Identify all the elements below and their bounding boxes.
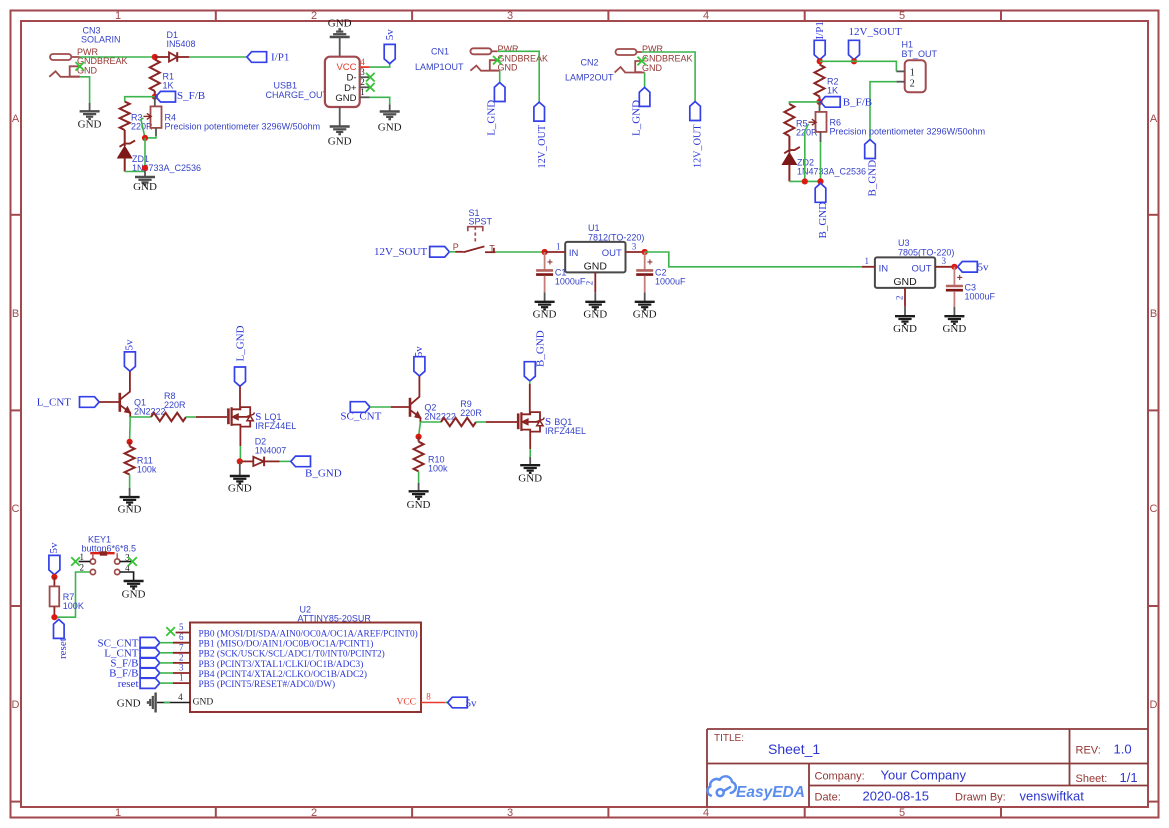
junction ZD1 ground xyxy=(142,165,148,171)
svg-text:PB4 (PCINT4/XTAL2/CLKO/OC1B/AD: PB4 (PCINT4/XTAL2/CLKO/OC1B/ADC2) xyxy=(199,669,367,680)
svg-text:4: 4 xyxy=(178,692,183,702)
power flag 5v at Q2 xyxy=(414,357,425,376)
wire PWR to D1 xyxy=(80,56,155,58)
svg-text:GND: GND xyxy=(193,698,214,708)
net port L_GND (CN1) xyxy=(494,83,505,102)
USB1 pin 3 xyxy=(360,76,370,78)
svg-text:B: B xyxy=(12,308,19,320)
svg-text:PB2 (SCK/USCK/SCL/ADC1/T0/INT0: PB2 (SCK/USCK/SCL/ADC1/T0/INT0/PCINT2) xyxy=(199,649,385,660)
svg-text:D: D xyxy=(12,699,20,711)
svg-text:5v: 5v xyxy=(466,697,478,709)
svg-text:100k: 100k xyxy=(428,464,448,474)
no-connect X on KEY1 pin3 xyxy=(128,557,137,566)
net port B_GND (H1) xyxy=(865,140,876,159)
junction R10 top xyxy=(416,434,422,440)
wire R4 bottom to junction xyxy=(145,136,156,138)
svg-text:GND: GND xyxy=(118,504,142,516)
frame right ticks xyxy=(1148,215,1159,802)
svg-text:3: 3 xyxy=(632,241,637,251)
svg-text:4: 4 xyxy=(360,57,365,67)
svg-text:1.0: 1.0 xyxy=(1114,742,1132,757)
svg-text:P: P xyxy=(453,242,459,252)
U2 pin 8 (VCC) to 5v xyxy=(421,702,445,704)
svg-text:1: 1 xyxy=(80,552,85,562)
svg-text:GND: GND xyxy=(335,93,356,104)
frame zone letters left xyxy=(12,113,20,711)
junction 5v/R7 xyxy=(51,574,57,580)
ground C3 xyxy=(944,316,964,324)
svg-text:1000uF: 1000uF xyxy=(655,277,686,287)
svg-text:1000uF: 1000uF xyxy=(965,292,996,302)
net port B_GND (ZD2) xyxy=(815,183,826,202)
svg-text:7: 7 xyxy=(179,642,184,652)
zener diode ZD1 xyxy=(124,130,126,146)
wire junction down xyxy=(144,138,146,171)
svg-text:1: 1 xyxy=(910,68,915,79)
junction at S_F/B node xyxy=(152,94,158,100)
capacitor C3 xyxy=(953,267,955,285)
net port I/P1 (top right, vertical) xyxy=(814,40,825,59)
ground LQ1 xyxy=(239,461,241,476)
H1 pin 2 wire to B_GND xyxy=(896,81,904,83)
no-connect X on USB1 pin 3 xyxy=(366,73,375,82)
svg-text:Company:: Company: xyxy=(815,771,865,783)
U2 pin 5 (PB0, nc) xyxy=(176,632,190,634)
ground R11 xyxy=(120,497,140,505)
resistor R9 xyxy=(441,418,476,426)
svg-text:GND: GND xyxy=(583,309,607,321)
no-connect X on CN3 GNDBREAK xyxy=(76,62,85,71)
svg-text:GND: GND xyxy=(228,483,252,495)
net port reset (vertical) xyxy=(54,619,65,638)
connector CN2 barrel jack symbol xyxy=(615,49,645,73)
svg-text:5: 5 xyxy=(899,807,905,819)
diode D1 xyxy=(155,56,169,58)
junction C2 xyxy=(642,249,648,255)
H1 pin 1 wire xyxy=(896,70,904,72)
svg-text:2: 2 xyxy=(311,10,317,22)
svg-text:2020-08-15: 2020-08-15 xyxy=(863,789,930,804)
svg-text:B_GND: B_GND xyxy=(535,330,547,367)
frame zone numbers top xyxy=(115,10,905,22)
regulator U3 body xyxy=(875,257,935,288)
ground C2 xyxy=(635,302,655,310)
wire ZD2 bottom rail xyxy=(789,180,820,182)
svg-text:4: 4 xyxy=(703,807,709,819)
wire CN2 PWR to 12V_OUT xyxy=(642,52,695,102)
svg-text:LAMP2OUT: LAMP2OUT xyxy=(565,73,614,83)
junction at R1 top xyxy=(152,54,158,60)
capacitor C1 xyxy=(544,252,546,269)
junction LQ1 source xyxy=(237,458,243,464)
power flag 5v at U3 xyxy=(958,262,978,273)
wire CN2 GND to L_GND xyxy=(644,73,646,88)
net port B_GND above BQ1 xyxy=(524,362,535,381)
svg-text:PB0 (MOSI/DI/SDA/AIN0/OC0A/OC1: PB0 (MOSI/DI/SDA/AIN0/OC0A/OC1A/AREF/PCI… xyxy=(199,628,418,639)
svg-text:5: 5 xyxy=(899,10,905,22)
svg-text:5v: 5v xyxy=(413,346,425,358)
transistor Q1 xyxy=(120,371,130,417)
frame left ticks xyxy=(11,215,22,802)
power flag 5v at KEY1 xyxy=(49,555,60,574)
svg-text:100k: 100k xyxy=(137,465,157,475)
wire CN3 GND to ground xyxy=(80,77,90,103)
resistor R7 xyxy=(53,577,55,587)
frame top ticks xyxy=(216,11,1001,22)
title block frame xyxy=(707,729,1148,807)
resistor R5 xyxy=(784,104,794,136)
svg-text:I/P1: I/P1 xyxy=(271,52,289,64)
ground KEY1 xyxy=(124,581,144,589)
wire L_GND to LQ1 drain xyxy=(239,386,241,409)
svg-text:Precision potentiometer 3296W/: Precision potentiometer 3296W/50ohm xyxy=(830,127,986,137)
svg-text:3: 3 xyxy=(507,807,513,819)
power flag 5v at USB1 xyxy=(384,44,395,63)
junction 12V_SOUT xyxy=(851,58,857,64)
ground below USB1 xyxy=(339,107,341,127)
svg-text:GND: GND xyxy=(122,589,146,601)
net port S_F/B xyxy=(156,91,176,102)
svg-text:GND: GND xyxy=(942,323,966,335)
svg-text:1K: 1K xyxy=(163,81,174,91)
svg-text:2: 2 xyxy=(179,652,184,662)
no-connect X on KEY1 pin1 xyxy=(71,557,80,566)
svg-text:3: 3 xyxy=(179,663,184,673)
wire top rail to H1 xyxy=(820,61,897,71)
svg-text:C: C xyxy=(1150,503,1158,515)
svg-text:1N4733A_C2536: 1N4733A_C2536 xyxy=(797,167,866,177)
svg-text:L_CNT: L_CNT xyxy=(37,397,72,409)
resistor R1 xyxy=(150,60,160,92)
svg-text:L_GND: L_GND xyxy=(486,100,498,136)
svg-text:GND: GND xyxy=(328,18,352,30)
USB1 pin 2 xyxy=(360,86,370,88)
wire USB1 VCC to 5v xyxy=(370,64,390,67)
svg-text:3: 3 xyxy=(507,10,513,22)
svg-text:S_F/B: S_F/B xyxy=(177,90,205,102)
potentiometer R4 xyxy=(154,97,156,107)
mosfet LQ1 xyxy=(228,407,250,427)
svg-text:L_GND: L_GND xyxy=(235,325,247,361)
wire BQ1 source to ground xyxy=(529,432,531,449)
svg-text:220R: 220R xyxy=(164,400,186,410)
svg-text:5v: 5v xyxy=(124,339,136,351)
svg-text:2: 2 xyxy=(360,77,365,87)
ground U3 xyxy=(895,316,915,324)
wire R8 to LQ1 gate xyxy=(186,416,196,418)
svg-text:IN: IN xyxy=(569,248,579,259)
svg-text:C: C xyxy=(12,503,20,515)
svg-text:2: 2 xyxy=(910,79,915,90)
USB1 pin 4 xyxy=(360,66,370,68)
svg-text:A: A xyxy=(12,113,20,125)
svg-text:IRFZ44EL: IRFZ44EL xyxy=(545,426,586,436)
resistor R2 xyxy=(815,65,825,97)
svg-text:Precision potentiometer 3296W/: Precision potentiometer 3296W/50ohm xyxy=(165,122,321,132)
svg-text:B_GND: B_GND xyxy=(305,468,342,480)
wire USB1 GND pin to ground xyxy=(370,97,390,104)
svg-text:GND: GND xyxy=(533,309,557,321)
svg-text:VCC: VCC xyxy=(336,62,356,73)
svg-text:BT_OUT: BT_OUT xyxy=(902,49,938,59)
wire CN1 PWR to 12V_OUT xyxy=(497,51,539,102)
svg-text:B_GND: B_GND xyxy=(817,202,829,239)
svg-text:6: 6 xyxy=(179,632,184,642)
svg-text:reset: reset xyxy=(118,678,139,690)
wire SC_CNT to Q2 base xyxy=(370,406,391,408)
U3 pin 1 xyxy=(862,266,875,268)
U2 pin 4 (GND) xyxy=(157,702,190,704)
svg-text:1000uF: 1000uF xyxy=(555,277,586,287)
BQ1 body diode xyxy=(537,421,543,426)
wire L_CNT to Q1 base xyxy=(99,401,119,403)
svg-text:REV:: REV: xyxy=(1076,745,1101,757)
svg-text:GND: GND xyxy=(78,118,102,130)
U3 pin 2 (GND) xyxy=(904,288,906,307)
ground USB1 pin1 xyxy=(380,112,400,120)
svg-text:OUT: OUT xyxy=(911,264,931,275)
svg-text:SPST: SPST xyxy=(469,217,493,227)
svg-text:1: 1 xyxy=(360,87,365,97)
wire Q1 emitter node xyxy=(130,416,151,418)
svg-text:5v: 5v xyxy=(48,542,60,554)
header H1 body xyxy=(905,60,926,92)
junction R7/reset xyxy=(51,614,57,620)
no-connect X on CN1 GNDBREAK xyxy=(493,56,502,65)
frame zone letters right xyxy=(1150,113,1158,711)
U3 pin 3 xyxy=(935,266,954,268)
svg-text:220R: 220R xyxy=(460,408,482,418)
svg-text:2N2222: 2N2222 xyxy=(424,412,456,422)
net port B_GND (D2) xyxy=(291,456,311,467)
connector CN3 barrel jack symbol xyxy=(49,54,80,77)
svg-text:SOLARIN: SOLARIN xyxy=(81,35,121,45)
zener diode ZD2 xyxy=(788,136,790,153)
svg-text:+: + xyxy=(547,258,553,269)
svg-text:12V_SOUT: 12V_SOUT xyxy=(849,26,902,38)
connector CN1 barrel jack symbol xyxy=(470,48,499,70)
svg-text:GND: GND xyxy=(328,135,352,147)
ground BQ1 xyxy=(520,465,540,473)
svg-text:LAMP1OUT: LAMP1OUT xyxy=(415,62,464,72)
LQ1 body diode xyxy=(247,416,253,421)
svg-text:CHARGE_OUT: CHARGE_OUT xyxy=(266,90,329,100)
junction B_F/B node xyxy=(816,99,822,105)
svg-text:12V_OUT: 12V_OUT xyxy=(693,124,704,168)
svg-text:B_GND: B_GND xyxy=(867,160,879,197)
frame bottom ticks xyxy=(216,807,1001,818)
svg-text:GND: GND xyxy=(633,309,657,321)
wire D1 to I/P1 xyxy=(189,56,247,58)
connector USB1 body xyxy=(325,57,360,107)
frame zone numbers bottom xyxy=(115,807,905,819)
svg-text:2: 2 xyxy=(585,281,595,286)
svg-text:IRFZ44EL: IRFZ44EL xyxy=(255,421,296,431)
wire S1 to C1/U1 xyxy=(495,251,544,253)
svg-text:TITLE:: TITLE: xyxy=(714,733,744,744)
svg-text:B: B xyxy=(1150,308,1157,320)
junction R4 bottom xyxy=(142,135,148,141)
svg-text:Sheet:: Sheet: xyxy=(1076,773,1108,785)
svg-text:GND: GND xyxy=(117,698,141,710)
svg-text:GND: GND xyxy=(893,276,917,288)
svg-text:2: 2 xyxy=(80,563,85,573)
svg-text:PB3 (PCINT3/XTAL1/CLKI/OC1B/AD: PB3 (PCINT3/XTAL1/CLKI/OC1B/ADC3) xyxy=(199,659,364,670)
svg-text:+: + xyxy=(647,258,653,269)
svg-text:CN1: CN1 xyxy=(431,47,449,57)
svg-text:12V_SOUT: 12V_SOUT xyxy=(374,246,427,258)
svg-text:A: A xyxy=(1150,113,1158,125)
mosfet BQ1 xyxy=(518,412,540,432)
capacitor C2 xyxy=(644,252,646,269)
net port 12V_OUT (CN1) xyxy=(534,102,545,121)
svg-text:8: 8 xyxy=(426,692,431,702)
net port B_F/B xyxy=(821,97,841,108)
wire R6 bottom down xyxy=(820,142,822,181)
svg-text:Date:: Date: xyxy=(815,792,841,804)
wire Q2 emitter node xyxy=(420,421,441,423)
svg-text:venswiftkat: venswiftkat xyxy=(1020,789,1085,804)
svg-text:GND: GND xyxy=(133,181,157,193)
svg-text:VCC: VCC xyxy=(396,698,416,708)
junction wiper/rail xyxy=(802,178,808,184)
svg-text:Your Company: Your Company xyxy=(881,768,967,783)
svg-text:L_GND: L_GND xyxy=(631,100,643,136)
resistor R8 xyxy=(151,413,186,421)
wire D2 to B_GND xyxy=(280,460,291,462)
svg-text:100K: 100K xyxy=(63,601,84,611)
svg-text:GND: GND xyxy=(893,323,917,335)
junction U3 out xyxy=(951,264,957,270)
U1 pin 2 (GND) xyxy=(594,272,596,292)
svg-text:1: 1 xyxy=(556,241,561,251)
resistor R11 xyxy=(125,446,135,474)
svg-text:4: 4 xyxy=(703,10,709,22)
svg-text:I/P1: I/P1 xyxy=(814,21,826,39)
svg-text:D: D xyxy=(1150,699,1158,711)
svg-text:+: + xyxy=(957,273,963,284)
wire CN1 GND to L_GND xyxy=(499,71,501,83)
svg-text:GNDBREAK: GNDBREAK xyxy=(642,53,693,63)
KEY1 pin lines xyxy=(79,562,134,582)
resistor R3 xyxy=(120,102,130,131)
svg-text:1N4007: 1N4007 xyxy=(255,446,287,456)
ground R10 xyxy=(409,491,429,499)
svg-text:H1: H1 xyxy=(902,40,914,50)
svg-text:GND: GND xyxy=(584,261,608,273)
svg-text:2: 2 xyxy=(311,807,317,819)
junction R11 top xyxy=(127,439,133,445)
svg-text:2N2222: 2N2222 xyxy=(134,407,166,417)
svg-text:12V_OUT: 12V_OUT xyxy=(537,124,548,168)
wire R10 to ground xyxy=(418,471,420,483)
svg-text:B_F/B: B_F/B xyxy=(843,97,872,109)
svg-text:reset: reset xyxy=(57,638,69,659)
svg-text:IN5408: IN5408 xyxy=(167,39,196,49)
diode D2 xyxy=(243,460,254,462)
svg-text:5v: 5v xyxy=(384,29,396,41)
net port L_GND (CN2) xyxy=(639,87,650,106)
wire R11 to ground xyxy=(129,475,131,489)
no-connect X on CN2 GNDBREAK xyxy=(638,57,647,66)
svg-text:PB5 (PCINT5/RESET#/ADC0/DW): PB5 (PCINT5/RESET#/ADC0/DW) xyxy=(199,679,336,690)
svg-text:Sheet_1: Sheet_1 xyxy=(768,741,820,757)
U1 pin 1 xyxy=(545,251,566,253)
svg-text:1: 1 xyxy=(179,673,184,683)
wire R9 to BQ1 gate xyxy=(476,421,486,423)
potentiometer R6 xyxy=(819,102,821,112)
ground ZD1 xyxy=(144,171,146,178)
resistor R10 xyxy=(418,437,420,442)
svg-text:3: 3 xyxy=(942,256,947,266)
svg-text:1: 1 xyxy=(865,256,870,266)
junction R6/rail xyxy=(817,178,823,184)
svg-text:GND: GND xyxy=(518,473,542,485)
regulator U1 body xyxy=(565,242,625,273)
wire R4 wiper xyxy=(141,118,145,138)
ground U1 xyxy=(585,302,605,310)
ground CN3 xyxy=(80,111,100,119)
EasyEDA logo xyxy=(708,776,736,796)
svg-text:1: 1 xyxy=(115,10,121,22)
svg-text:CN2: CN2 xyxy=(581,58,599,68)
svg-text:3: 3 xyxy=(360,67,365,77)
svg-text:OUT: OUT xyxy=(602,248,622,259)
ground C1 xyxy=(535,302,555,310)
USB1 pin 1 xyxy=(360,96,370,98)
wire B_GND to BQ1 drain xyxy=(529,381,531,384)
pushbutton KEY1 symbol xyxy=(90,552,114,554)
power flag 5v at Q1 xyxy=(124,352,135,371)
IC U2 body xyxy=(190,623,421,713)
svg-text:EasyEDA: EasyEDA xyxy=(736,784,805,801)
switch S1 actuator bracket xyxy=(468,227,483,243)
wire ZD1 bottom xyxy=(125,171,145,173)
svg-text:PB1 (MISO/DO/AIN1/OC0B/OC1A/PC: PB1 (MISO/DO/AIN1/OC0B/OC1A/PCINT1) xyxy=(199,639,374,650)
svg-text:GND: GND xyxy=(378,122,402,134)
net port 12V_OUT (CN2) xyxy=(690,102,701,121)
svg-text:Drawn By:: Drawn By: xyxy=(955,792,1006,804)
net port L_GND above LQ1 xyxy=(235,367,246,386)
power flag 5v at U2 xyxy=(448,697,468,708)
net port I/P1 xyxy=(247,52,267,63)
junction I/P1 xyxy=(817,58,823,64)
wire R6 wiper down xyxy=(805,124,809,182)
junction C1 xyxy=(542,249,548,255)
wire 5v to KEY1 pin2 xyxy=(54,572,90,617)
svg-text:5v: 5v xyxy=(978,261,990,273)
wire B_F/B node left xyxy=(789,102,819,104)
svg-text:1/1: 1/1 xyxy=(1120,770,1138,785)
wire LQ1 source down xyxy=(239,427,241,446)
wire S_F/B node left xyxy=(125,97,155,102)
svg-text:2: 2 xyxy=(894,296,904,301)
U1 pin 3 xyxy=(626,251,645,253)
svg-text:1K: 1K xyxy=(827,86,838,96)
ground U2 pin4 (sideways) xyxy=(148,693,156,713)
wire C2 to U3 (step) xyxy=(645,252,862,267)
no-connect X on USB1 pin 2 xyxy=(366,83,375,92)
svg-text:GND: GND xyxy=(407,499,431,511)
svg-text:IN: IN xyxy=(879,264,889,275)
svg-text:1: 1 xyxy=(115,807,121,819)
svg-text:5: 5 xyxy=(179,622,184,632)
transistor Q2 xyxy=(410,376,420,422)
